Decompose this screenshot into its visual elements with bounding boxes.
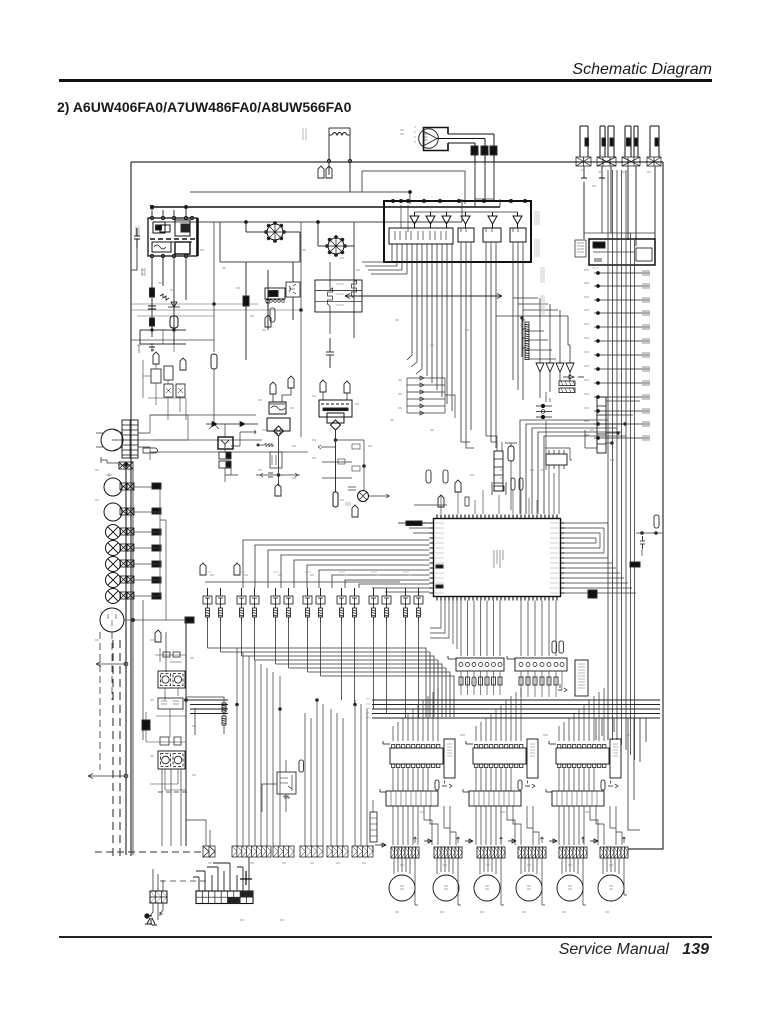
CN-mid cells xyxy=(494,459,503,483)
transformer TR2 bar xyxy=(323,408,348,411)
photocoupler circle PC1 xyxy=(358,491,369,502)
transistor Q2 xyxy=(216,588,225,622)
bottom wide block BW body xyxy=(196,891,253,904)
capacitor tube CZ2 xyxy=(352,505,358,517)
diode DZ1 xyxy=(268,473,273,477)
transformer TR1 body xyxy=(269,402,286,414)
label cx xyxy=(303,128,306,140)
wire ladder long nets xyxy=(150,415,308,452)
connector CN03 shell xyxy=(608,126,614,157)
K1 inner transistor xyxy=(289,284,296,294)
wire bus into U13 top xyxy=(559,688,604,741)
motor M-comp big circle xyxy=(101,429,123,451)
part black e xyxy=(152,561,161,567)
wire dm row xyxy=(636,533,662,556)
frame left border xyxy=(130,162,132,856)
wire long bus 3 xyxy=(190,708,660,710)
wire driver input rail xyxy=(401,205,518,232)
ground G1 xyxy=(149,344,155,350)
wire pads down xyxy=(546,392,550,470)
wire bus n2 xyxy=(221,652,431,717)
BS hatch xyxy=(150,891,167,903)
wire row-b right xyxy=(134,511,160,513)
wire bus feeds top right xyxy=(584,178,655,239)
wire relay block bottom fanout xyxy=(362,244,452,411)
resistor RS4 xyxy=(525,351,529,360)
connector strip S6 xyxy=(600,847,628,858)
capacitor CT3 xyxy=(320,380,326,392)
diode row above FX1 xyxy=(206,422,258,427)
wire right low verticals xyxy=(628,718,646,830)
wire left horizontals y304 xyxy=(131,304,301,316)
row r9 xyxy=(594,381,650,385)
section title xyxy=(57,99,351,115)
small box lines xyxy=(577,243,584,252)
wire U5 row line xyxy=(593,251,634,253)
strip SB arrow xyxy=(507,656,515,659)
triangle driver T3 xyxy=(442,212,451,228)
transistor Q9 xyxy=(337,588,346,622)
DC1 dark core xyxy=(269,291,278,297)
connector strip LD xyxy=(300,846,323,857)
transformer block TB2 outline xyxy=(158,751,185,769)
wire BS down plug xyxy=(150,903,163,920)
capacitor CT4 xyxy=(344,381,350,393)
dashed left pair xyxy=(113,640,120,856)
wire bd3 down xyxy=(278,436,280,486)
capsule CM3 xyxy=(511,478,515,490)
capsule CM4 xyxy=(519,478,523,490)
footer text: Service Manual xyxy=(559,941,709,959)
diode arrow before S5 xyxy=(549,839,557,843)
wire bus n6 xyxy=(289,668,447,717)
resistor rb4 xyxy=(348,487,356,490)
IC U13 xyxy=(556,745,609,768)
opto resistor xyxy=(283,796,290,799)
diode arrow before S6 xyxy=(590,839,598,843)
capacitor tube CM2 xyxy=(455,480,461,492)
wire loop big rectangle xyxy=(362,171,465,204)
capacitor CT2 xyxy=(288,376,294,388)
wire lower-left net xyxy=(140,330,186,344)
BD2 spokes xyxy=(328,238,344,254)
diode arrow before S2 xyxy=(424,839,432,843)
wire Q outputs to bus nest xyxy=(208,622,419,700)
connector CN-mid body xyxy=(494,451,503,491)
capacitor C01 plates xyxy=(148,306,156,309)
connector CN05 shell xyxy=(634,126,638,157)
transistor Q3 xyxy=(237,588,246,622)
box pair smps2 a xyxy=(160,737,169,745)
diode arrow before S4 xyxy=(508,839,516,843)
connector CN06 shell xyxy=(650,126,659,157)
relay bank RB1 cells xyxy=(395,231,446,240)
row r13 xyxy=(594,436,650,440)
wire col2 xyxy=(246,262,268,360)
dashed wire to strips xyxy=(95,851,203,853)
wire long bus 2 xyxy=(190,704,660,706)
connector strip S3 xyxy=(477,847,505,858)
wire tb1 bottom xyxy=(165,688,178,700)
connector strip LE xyxy=(327,846,348,857)
connector ladder rungs xyxy=(122,425,138,455)
connector cn-g xyxy=(120,592,134,599)
crystal X1 caps xyxy=(492,482,506,495)
motor M2b text xyxy=(444,886,448,889)
wire feeds from fan into block top xyxy=(475,199,494,207)
power module PM1 top pins xyxy=(150,216,193,219)
lamp L4 xyxy=(106,573,121,588)
wire across motif y262 xyxy=(220,222,300,262)
wire verticals center-bottom to strips xyxy=(237,648,367,846)
tall line x354 xyxy=(353,222,355,338)
diode pair SB xyxy=(558,684,567,692)
connector block CB1 xyxy=(576,157,591,166)
connector CN-FAN blobs xyxy=(471,146,478,155)
triangle driver TD3 xyxy=(556,363,564,372)
capsule near opto xyxy=(299,760,304,772)
resistor R06 zig xyxy=(352,280,357,298)
IC U12 xyxy=(473,745,526,768)
IC U11 side rect xyxy=(444,739,455,778)
part lower-left fill detail xyxy=(154,245,166,249)
wire left bus vertical 2 xyxy=(132,469,134,855)
wire smps vertical 2 xyxy=(143,600,166,740)
wire y340 shelf xyxy=(131,339,214,341)
transistor Q14 xyxy=(414,588,423,622)
triangle driver TD4 xyxy=(566,363,574,372)
wire top-right drops xyxy=(584,166,655,252)
motor M1 xyxy=(389,875,415,901)
wire x214 lower xyxy=(209,369,219,429)
wire tall vertical x301 xyxy=(300,222,302,437)
wire top bus 2 xyxy=(160,221,462,223)
wire top bus into block xyxy=(462,199,500,222)
capacitor Q1 cap xyxy=(200,563,206,575)
connector CN01 pin xyxy=(585,138,589,146)
IC U13 side rect xyxy=(610,739,621,778)
crossbar b1 xyxy=(322,462,352,478)
resistor R01 xyxy=(150,288,155,297)
wire fan to connector xyxy=(437,134,494,143)
TB1 cell 1 circle xyxy=(162,676,169,683)
MCU U1 right pins xyxy=(561,523,565,593)
wire bus n12 xyxy=(387,692,419,718)
label row tags xyxy=(206,571,409,573)
lamp L2 xyxy=(106,541,121,556)
regulator box RG1 xyxy=(327,413,344,423)
node left border junction xyxy=(118,464,131,466)
relay RB3 pins xyxy=(486,228,496,246)
transformer block TB1 outline xyxy=(158,671,185,688)
wire rows to right bus xyxy=(160,487,166,620)
wire pc1 right xyxy=(369,494,390,498)
connector cn-e xyxy=(120,560,134,567)
U6 top rail xyxy=(545,448,572,460)
transistor Q6 xyxy=(284,588,293,622)
wire bd4 down long xyxy=(335,430,337,492)
wire ct pair xyxy=(273,388,291,402)
resistor R02 xyxy=(160,294,169,300)
node rz1 xyxy=(257,444,259,446)
lamp L5 xyxy=(106,589,121,604)
opto circuit box bottom xyxy=(277,772,296,794)
wire BS top xyxy=(153,869,163,891)
wire SA drops xyxy=(461,671,500,695)
transistor Q4 xyxy=(250,588,259,622)
resistor stack rail xyxy=(522,320,525,357)
diode pair under U13 xyxy=(608,781,618,789)
opto inner xyxy=(280,775,292,791)
wire cluster nets xyxy=(143,360,186,420)
row r6 xyxy=(594,339,650,343)
motor M3 text xyxy=(485,886,489,889)
U5 chip blob xyxy=(593,242,605,248)
wire diode rows right bus xyxy=(407,378,455,418)
triangle driver T2 xyxy=(426,212,435,228)
node stack top xyxy=(521,317,523,319)
node dash junction low xyxy=(124,774,128,778)
left small connector column xyxy=(370,812,377,842)
wire long bus 1 xyxy=(186,699,660,701)
node dm xyxy=(641,532,658,535)
capacitor CX1 xyxy=(318,166,324,178)
row r1 xyxy=(594,271,650,275)
thermal protector TP xyxy=(143,448,158,453)
connector CN-TH body xyxy=(597,397,606,453)
TB2 cell 2 circle xyxy=(174,756,182,764)
stack rows xyxy=(315,291,362,302)
connector CN01 shell xyxy=(580,126,588,157)
lamp L3 xyxy=(106,557,121,572)
resistor RM1 xyxy=(465,497,469,506)
transistor Q7 xyxy=(303,588,312,622)
wire branch right xyxy=(318,440,364,490)
resistor RZ1 xyxy=(258,444,274,447)
row r1 label xyxy=(592,267,599,269)
connector strip S2 xyxy=(434,847,462,858)
wire relay right columns down xyxy=(461,246,568,448)
wire coil down xyxy=(329,163,350,192)
wire tb2 bottom xyxy=(150,769,186,790)
wire CN-TH taps xyxy=(585,401,640,448)
wire ladder right nets xyxy=(150,415,188,460)
wire bus n9 xyxy=(341,680,343,700)
wire PM1 bottom drops xyxy=(152,258,186,340)
stack row marks xyxy=(336,284,344,305)
wire bus n10 xyxy=(354,684,356,705)
gear circle BD2 xyxy=(328,238,344,254)
TB2 cell 1 circle xyxy=(162,756,170,764)
smps upper cluster tubes xyxy=(153,352,159,364)
fan motor FM1 enclosure xyxy=(424,128,449,151)
resistor pair smps xyxy=(163,652,170,657)
IC U12 side rect xyxy=(527,739,538,778)
box pair smps2 b xyxy=(174,737,181,745)
node th dots xyxy=(611,423,626,444)
motor M1 text xyxy=(400,886,404,889)
wire left risers xyxy=(152,330,174,352)
inductor L1 coil xyxy=(332,133,347,136)
capacitor C-line left xyxy=(134,228,140,248)
motor M5 xyxy=(557,875,583,901)
wire bus n4 xyxy=(255,660,439,717)
capacitor CT1 xyxy=(270,382,276,394)
MCU U1 body xyxy=(434,519,561,597)
wire smps drops to strips xyxy=(162,769,210,846)
wire FX1 nets xyxy=(225,424,248,482)
left column cells xyxy=(370,818,377,836)
row r12 xyxy=(594,422,650,426)
fan motor FM1 xyxy=(419,129,439,149)
strip SB body xyxy=(515,658,567,671)
wire row-e xyxy=(134,563,160,565)
dashed arrow mid xyxy=(96,662,126,667)
wire fan drops below frame xyxy=(475,162,494,207)
capsule under U13 xyxy=(601,780,605,790)
header text: Schematic Diagram xyxy=(572,61,712,79)
resonator lead xyxy=(398,522,429,524)
sensor IC U6 xyxy=(546,454,567,465)
wire bus y192 xyxy=(190,192,410,204)
wire MCU left harness nest xyxy=(243,523,430,592)
resistor rb2 xyxy=(352,444,360,449)
triangle driver T1 xyxy=(410,212,419,228)
capsule under U11 xyxy=(435,780,439,790)
connector strip S4 xyxy=(518,847,546,858)
diode arrow before S1 xyxy=(375,843,386,847)
relay RB4 xyxy=(510,228,526,242)
IC U12 side text xyxy=(530,744,535,756)
wire long arrow y296 xyxy=(345,294,502,299)
compressor M2 circle xyxy=(100,608,124,632)
dark component DC1 xyxy=(265,288,285,299)
relay RY1 inside PM1 xyxy=(153,222,165,233)
transistor Q12 xyxy=(382,588,391,622)
row r2 xyxy=(594,284,650,288)
wire tall vertical x214 xyxy=(213,222,215,352)
MCU pin name ticks right inside xyxy=(550,523,559,593)
connector strip LB xyxy=(232,846,271,857)
resistor rb1 xyxy=(338,459,345,464)
vertical bus right x608-634 xyxy=(608,170,635,760)
capacitor tube smps1 xyxy=(155,630,161,642)
wire row-f xyxy=(134,579,160,581)
transformer TR2 body xyxy=(319,400,352,417)
compressor leads xyxy=(108,614,116,626)
IC U11 arrow xyxy=(383,741,390,744)
cluster box b xyxy=(164,366,173,380)
resistor RS1 xyxy=(525,322,529,331)
BD2 teeth xyxy=(326,236,347,257)
diode DA2 xyxy=(407,383,445,387)
connector CN03 pin xyxy=(610,138,614,146)
connector ladder CN-M body xyxy=(122,420,138,458)
transistor box K1 xyxy=(286,282,300,297)
row r4 xyxy=(594,311,650,315)
MCU pin name ticks left inside xyxy=(435,523,444,593)
bottom small connector BS body xyxy=(150,891,167,903)
wire bus n3 xyxy=(242,656,435,717)
power module PM1 right thick edge xyxy=(196,218,199,256)
relay RB2 xyxy=(458,228,474,242)
part black comp xyxy=(185,617,194,623)
wire PM1 top feeds xyxy=(152,207,186,216)
connector CN04 shell xyxy=(625,126,631,157)
transistor Q5 xyxy=(271,588,280,622)
resistor RP2 xyxy=(222,716,226,725)
relay block top pin bubbles xyxy=(391,199,526,202)
wire bus n7 xyxy=(308,672,451,717)
connector CN06 pin xyxy=(655,138,659,146)
frame right border xyxy=(628,162,663,849)
resistor R04 xyxy=(266,292,270,311)
BW cells xyxy=(196,891,253,904)
crystal X1 xyxy=(494,486,504,491)
wire triangle feeds xyxy=(540,298,570,363)
connector cn-b xyxy=(120,508,134,515)
resistor in BZ1 xyxy=(272,455,276,465)
wire bus n8 xyxy=(321,676,455,717)
relay RB3 xyxy=(483,228,501,242)
relay RB2 pins xyxy=(461,228,471,246)
wire smps middle nets xyxy=(146,709,186,742)
resistors under SB xyxy=(519,677,558,685)
bridge BD3 diodes xyxy=(276,429,281,434)
triangle driver T5 xyxy=(488,212,497,228)
power module PM1 bottom pins xyxy=(150,254,187,257)
cluster box e mark xyxy=(178,388,183,393)
option pads rows xyxy=(536,404,552,419)
right block U5 body xyxy=(589,239,655,265)
wire BD1 taps xyxy=(246,222,300,262)
motor M6 text xyxy=(609,886,613,889)
cluster tube c xyxy=(180,358,186,370)
BD1 spokes xyxy=(267,224,283,240)
TB2 cell 2 dashed xyxy=(173,754,183,767)
strip SA body xyxy=(456,658,504,671)
connector CN05 pin xyxy=(635,138,639,146)
triangle driver T4 xyxy=(461,212,470,228)
transformer TR2 dashes xyxy=(321,403,349,405)
connector CN-TH cells xyxy=(597,406,606,444)
diode DA4 xyxy=(407,397,445,401)
resistor RS2 xyxy=(525,332,529,341)
PM1 hatch row xyxy=(152,241,192,243)
wire row-d xyxy=(134,547,160,549)
cluster box a xyxy=(151,369,161,383)
flat F2 arrow xyxy=(463,789,469,792)
IC U12 arrow xyxy=(466,741,473,744)
fan label dashes xyxy=(414,126,416,143)
triangle driver TD2 xyxy=(546,363,554,372)
row r3 xyxy=(594,298,650,302)
cluster box e xyxy=(176,384,185,397)
wire L-bend nest into MCU top xyxy=(520,420,626,514)
box smps mid xyxy=(158,698,183,709)
wire top bus 1 xyxy=(152,206,500,208)
wire smps vertical main xyxy=(185,620,187,846)
capsules above SB xyxy=(552,641,557,653)
node coil-l xyxy=(328,160,331,163)
node coil-r xyxy=(349,160,352,163)
resistor RS3 xyxy=(525,341,529,350)
motor M3 xyxy=(474,875,500,901)
wire 222 drop at 246 xyxy=(245,222,247,232)
arrow diamond right xyxy=(563,375,584,379)
wire BW stubs up xyxy=(193,857,249,891)
wire k1 xyxy=(292,262,294,320)
